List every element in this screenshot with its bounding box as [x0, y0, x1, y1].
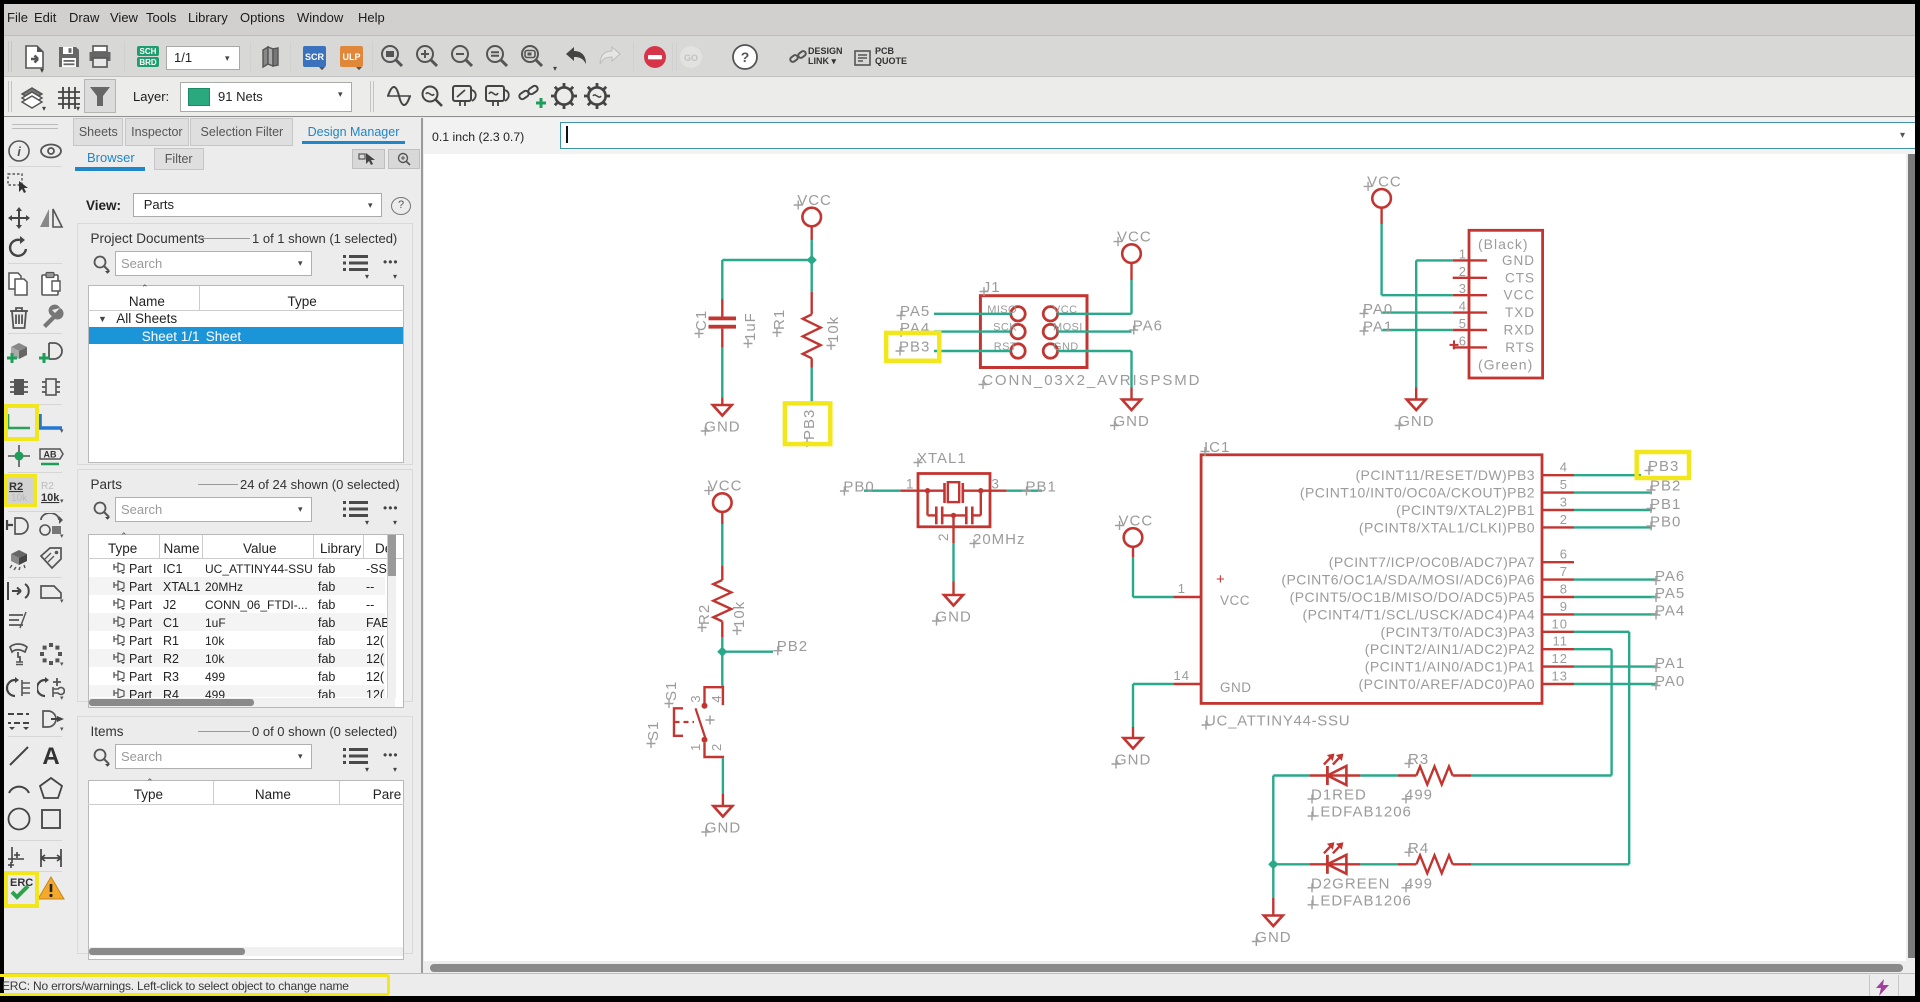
svg-text:R2: R2 [41, 481, 54, 492]
svg-text:C1: C1 [693, 310, 710, 331]
svg-text:RTS: RTS [1505, 340, 1535, 355]
svg-text:VCC: VCC [1367, 173, 1402, 190]
svg-text:10: 10 [1552, 616, 1568, 631]
svg-text:GND: GND [1114, 413, 1150, 430]
svg-text:PB3: PB3 [801, 409, 818, 440]
svg-text:+: + [1216, 571, 1225, 588]
svg-text:499: 499 [1405, 875, 1433, 892]
svg-text:10k: 10k [731, 601, 748, 628]
svg-text:20MHz: 20MHz [973, 531, 1026, 548]
svg-text:6: 6 [1560, 547, 1568, 562]
svg-text:CONN_03X2_AVRISPSMD: CONN_03X2_AVRISPSMD [982, 372, 1201, 389]
svg-text:VCC: VCC [797, 192, 832, 209]
svg-text:3: 3 [688, 694, 703, 702]
svg-text:(PCINT10/INT0/OC0A/CKOUT)PB2: (PCINT10/INT0/OC0A/CKOUT)PB2 [1300, 485, 1535, 501]
svg-text:PB2: PB2 [1650, 478, 1681, 495]
svg-text:A: A [42, 743, 59, 769]
svg-text:1: 1 [1459, 246, 1467, 261]
svg-text:BRD: BRD [139, 58, 157, 67]
svg-text:VCC: VCC [1220, 593, 1250, 608]
svg-text:GND: GND [936, 609, 972, 626]
svg-text:R3: R3 [1408, 751, 1429, 768]
svg-text:(PCINT0/AREF/ADC0)PA0: (PCINT0/AREF/ADC0)PA0 [1359, 676, 1535, 692]
svg-text:?: ? [741, 49, 750, 65]
svg-text:VCC: VCC [1117, 229, 1152, 246]
svg-text:3: 3 [1459, 281, 1467, 296]
svg-text:PA5: PA5 [900, 303, 930, 320]
svg-text:4: 4 [1560, 460, 1568, 475]
svg-text:R1: R1 [771, 309, 788, 330]
svg-text:VCC: VCC [708, 478, 743, 495]
svg-text:8: 8 [1560, 582, 1568, 597]
svg-text:SCH: SCH [140, 47, 157, 56]
svg-text:LEDFAB1206: LEDFAB1206 [1311, 892, 1412, 909]
svg-text:PA4: PA4 [1655, 603, 1685, 620]
svg-text:1: 1 [1178, 581, 1186, 596]
svg-text:GND: GND [705, 820, 741, 837]
svg-text:(PCINT3/T0/ADC3)PA3: (PCINT3/T0/ADC3)PA3 [1380, 624, 1535, 640]
svg-text:(PCINT4/T1/SCL/USCK/ADC4)PA4: (PCINT4/T1/SCL/USCK/ADC4)PA4 [1302, 606, 1535, 622]
svg-text:PB1: PB1 [1026, 479, 1057, 496]
svg-text:3: 3 [1560, 495, 1568, 510]
svg-text:(PCINT1/AIN0/ADC1)PA1: (PCINT1/AIN0/ADC1)PA1 [1365, 659, 1535, 675]
svg-text:1uF: 1uF [742, 312, 759, 341]
svg-text:13: 13 [1552, 669, 1568, 684]
svg-text:5: 5 [1560, 477, 1568, 492]
svg-text:AB: AB [44, 450, 57, 460]
svg-text:4: 4 [1459, 299, 1467, 314]
svg-text:(PCINT8/XTAL1/CLKI)PB0: (PCINT8/XTAL1/CLKI)PB0 [1359, 519, 1535, 535]
svg-text:IC1: IC1 [1204, 439, 1230, 456]
svg-text:(PCINT5/OC1B/MISO/DO/ADC5)PA5: (PCINT5/OC1B/MISO/DO/ADC5)PA5 [1290, 589, 1535, 605]
svg-text:VCC: VCC [1503, 288, 1535, 303]
svg-text:PB3: PB3 [1648, 458, 1679, 475]
svg-text:PB0: PB0 [1650, 514, 1681, 531]
svg-text:499: 499 [1405, 787, 1433, 804]
svg-text:TXD: TXD [1505, 305, 1535, 320]
svg-text:1: 1 [906, 477, 915, 492]
svg-text:(PCINT2/AIN1/ADC2)PA2: (PCINT2/AIN1/ADC2)PA2 [1365, 641, 1535, 657]
svg-text:R4: R4 [1408, 840, 1429, 857]
svg-text:PB1: PB1 [1650, 496, 1681, 513]
svg-text:XTAL1: XTAL1 [917, 450, 967, 467]
svg-text:PB3: PB3 [899, 339, 930, 356]
svg-text:PA6: PA6 [1655, 568, 1685, 585]
svg-text:9: 9 [1560, 599, 1568, 614]
svg-text:S1: S1 [645, 721, 662, 741]
svg-text:GND: GND [1255, 929, 1291, 946]
svg-text:(PCINT6/OC1A/SDA/MOSI/ADC6)PA6: (PCINT6/OC1A/SDA/MOSI/ADC6)PA6 [1281, 572, 1535, 588]
svg-text:VCC: VCC [1119, 513, 1154, 530]
svg-text:11: 11 [1553, 634, 1569, 649]
svg-text:PB0: PB0 [843, 479, 874, 496]
svg-text:7: 7 [1560, 564, 1568, 579]
svg-text:D1RED: D1RED [1311, 787, 1367, 804]
svg-text:GND: GND [1398, 413, 1434, 430]
svg-text:2: 2 [1560, 512, 1568, 527]
svg-text:(Green): (Green) [1478, 357, 1533, 373]
svg-text:GND: GND [1115, 752, 1151, 769]
svg-text:1: 1 [688, 743, 703, 751]
svg-text:(PCINT7/ICP/OC0B/ADC7)PA7: (PCINT7/ICP/OC0B/ADC7)PA7 [1329, 554, 1535, 570]
svg-text:2: 2 [936, 532, 951, 541]
svg-text:PA1: PA1 [1655, 655, 1685, 672]
svg-text:(PCINT9/XTAL2)PB1: (PCINT9/XTAL2)PB1 [1396, 502, 1535, 518]
svg-text:J1: J1 [983, 279, 1001, 296]
svg-text:SCR: SCR [305, 52, 325, 62]
svg-text:3: 3 [991, 477, 1000, 492]
svg-text:2: 2 [709, 743, 724, 751]
svg-text:LEDFAB1206: LEDFAB1206 [1311, 804, 1412, 821]
svg-text:PA0: PA0 [1655, 673, 1685, 690]
svg-text:(PCINT11/RESET/DW)PB3: (PCINT11/RESET/DW)PB3 [1355, 467, 1535, 483]
svg-text:ULP: ULP [343, 52, 361, 62]
svg-text:14: 14 [1174, 668, 1190, 683]
svg-text:PA6: PA6 [1133, 318, 1163, 335]
svg-text:PB2: PB2 [777, 638, 808, 655]
svg-text:GND: GND [704, 419, 740, 436]
svg-text:UC_ATTINY44-SSU: UC_ATTINY44-SSU [1205, 713, 1350, 730]
svg-text:10k: 10k [825, 316, 842, 343]
svg-text:GO: GO [684, 53, 698, 63]
svg-text:i: i [17, 144, 21, 159]
svg-text:GND: GND [1220, 680, 1252, 695]
svg-text:PA1: PA1 [1363, 319, 1393, 336]
svg-text:R2: R2 [696, 604, 713, 625]
svg-text:GND: GND [1502, 253, 1535, 268]
svg-text:4: 4 [709, 694, 724, 702]
svg-text:PA5: PA5 [1655, 585, 1685, 602]
svg-text:CTS: CTS [1505, 270, 1535, 285]
svg-text:5: 5 [1459, 316, 1467, 331]
svg-text:D2GREEN: D2GREEN [1311, 875, 1391, 892]
svg-text:10k: 10k [41, 492, 60, 504]
svg-text:(Black): (Black) [1478, 236, 1529, 252]
svg-text:2: 2 [1459, 264, 1467, 279]
svg-text:RXD: RXD [1503, 323, 1535, 338]
svg-text:6: 6 [1459, 333, 1467, 348]
svg-text:PA0: PA0 [1363, 301, 1393, 318]
svg-text:S1: S1 [663, 681, 680, 701]
svg-text:12: 12 [1552, 651, 1568, 666]
